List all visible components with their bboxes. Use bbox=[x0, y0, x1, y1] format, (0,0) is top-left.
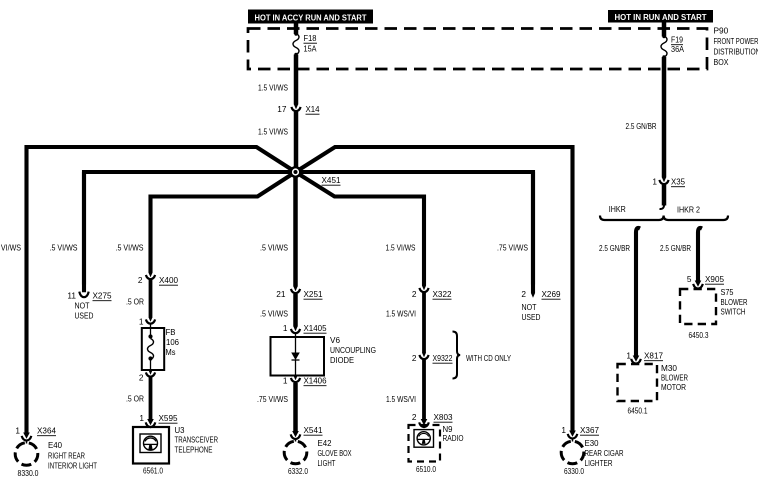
svg-text:21: 21 bbox=[276, 289, 286, 299]
svg-text:X322: X322 bbox=[433, 289, 452, 299]
svg-text:MOTOR: MOTOR bbox=[661, 382, 686, 392]
svg-text:BLOWER: BLOWER bbox=[721, 297, 748, 307]
svg-text:2.5 GN/BR: 2.5 GN/BR bbox=[660, 243, 691, 253]
svg-text:6561.0: 6561.0 bbox=[143, 466, 163, 476]
svg-text:E42: E42 bbox=[318, 438, 332, 448]
svg-text:2.5 GN/BR: 2.5 GN/BR bbox=[626, 121, 657, 131]
svg-text:X451: X451 bbox=[322, 175, 341, 185]
svg-text:.5 VI/WS: .5 VI/WS bbox=[50, 243, 78, 253]
svg-text:TELEPHONE: TELEPHONE bbox=[175, 445, 213, 455]
svg-text:V6: V6 bbox=[330, 335, 340, 345]
svg-text:.5 VI/WS: .5 VI/WS bbox=[260, 243, 288, 253]
svg-text:GLOVE BOX: GLOVE BOX bbox=[318, 448, 352, 458]
svg-text:5: 5 bbox=[687, 274, 692, 284]
svg-text:LIGHTER: LIGHTER bbox=[585, 458, 613, 468]
svg-text:X9322: X9322 bbox=[433, 353, 453, 363]
svg-text:WITH CD ONLY: WITH CD ONLY bbox=[466, 353, 511, 363]
svg-text:U3: U3 bbox=[175, 425, 185, 435]
svg-text:6450.3: 6450.3 bbox=[689, 330, 709, 340]
svg-text:BLOWER: BLOWER bbox=[661, 373, 688, 383]
svg-text:11: 11 bbox=[67, 291, 76, 301]
svg-text:2: 2 bbox=[412, 289, 417, 299]
svg-text:.75 VI/WS: .75 VI/WS bbox=[257, 394, 288, 404]
svg-text:Ms: Ms bbox=[166, 347, 176, 357]
svg-text:BOX: BOX bbox=[714, 57, 729, 67]
svg-text:2: 2 bbox=[412, 353, 417, 363]
svg-text:X803: X803 bbox=[434, 412, 453, 422]
svg-text:LIGHT: LIGHT bbox=[318, 458, 336, 468]
svg-text:17: 17 bbox=[277, 104, 287, 114]
svg-text:SWITCH: SWITCH bbox=[721, 307, 746, 317]
svg-text:6330.0: 6330.0 bbox=[564, 466, 584, 476]
svg-text:.75 VI/WS: .75 VI/WS bbox=[497, 243, 528, 253]
svg-text:1: 1 bbox=[283, 376, 288, 386]
svg-text:HOT IN ACCY RUN AND START: HOT IN ACCY RUN AND START bbox=[255, 13, 367, 22]
svg-text:1: 1 bbox=[561, 425, 566, 435]
svg-text:2: 2 bbox=[521, 289, 526, 299]
svg-text:2.5 GN/BR: 2.5 GN/BR bbox=[599, 243, 630, 253]
svg-text:1: 1 bbox=[652, 177, 657, 187]
svg-text:106: 106 bbox=[166, 337, 179, 347]
svg-text:15A: 15A bbox=[304, 44, 317, 54]
svg-text:X905: X905 bbox=[705, 274, 724, 284]
svg-text:USED: USED bbox=[75, 311, 94, 321]
svg-text:1: 1 bbox=[283, 323, 288, 333]
svg-text:8330.0: 8330.0 bbox=[18, 468, 39, 478]
svg-text:REAR CIGAR: REAR CIGAR bbox=[585, 448, 624, 458]
svg-text:X269: X269 bbox=[542, 289, 561, 299]
svg-text:TRANSCEIVER: TRANSCEIVER bbox=[175, 435, 219, 445]
svg-text:RADIO: RADIO bbox=[443, 433, 464, 443]
svg-text:6450.1: 6450.1 bbox=[628, 406, 648, 416]
svg-text:IHKR: IHKR bbox=[609, 204, 626, 214]
svg-text:.5 OR: .5 OR bbox=[126, 297, 144, 307]
svg-text:X1405: X1405 bbox=[304, 323, 327, 333]
svg-text:IHKR 2: IHKR 2 bbox=[677, 204, 700, 214]
svg-text:X364: X364 bbox=[37, 426, 56, 436]
svg-text:X1406: X1406 bbox=[304, 376, 327, 386]
svg-text:1: 1 bbox=[15, 426, 20, 436]
svg-text:USED: USED bbox=[522, 312, 541, 322]
svg-text:2: 2 bbox=[412, 412, 417, 422]
svg-text:NOT: NOT bbox=[522, 302, 537, 312]
svg-text:RIGHT REAR: RIGHT REAR bbox=[48, 451, 85, 461]
svg-text:P90: P90 bbox=[714, 26, 729, 36]
svg-text:X14: X14 bbox=[306, 104, 320, 114]
svg-text:INTERIOR LIGHT: INTERIOR LIGHT bbox=[48, 461, 97, 471]
svg-text:1.5 WS/VI: 1.5 WS/VI bbox=[386, 309, 416, 319]
svg-text:DISTRIBUTION: DISTRIBUTION bbox=[714, 47, 758, 57]
svg-text:.5 OR: .5 OR bbox=[126, 394, 144, 404]
svg-text:.5 VI/WS: .5 VI/WS bbox=[0, 243, 21, 253]
svg-text:1: 1 bbox=[139, 317, 144, 327]
svg-text:FRONT POWER: FRONT POWER bbox=[714, 36, 758, 46]
svg-text:X541: X541 bbox=[304, 425, 323, 435]
svg-text:2: 2 bbox=[139, 373, 144, 383]
svg-text:NOT: NOT bbox=[75, 301, 90, 311]
svg-text:.5 VI/WS: .5 VI/WS bbox=[260, 309, 288, 319]
svg-text:X595: X595 bbox=[159, 413, 178, 423]
svg-text:M30: M30 bbox=[661, 363, 677, 373]
svg-text:F19: F19 bbox=[671, 35, 683, 45]
svg-text:1.5 VI/WS: 1.5 VI/WS bbox=[258, 127, 288, 137]
svg-text:1.5 WS/VI: 1.5 WS/VI bbox=[386, 394, 416, 404]
svg-text:X275: X275 bbox=[93, 291, 112, 301]
svg-text:F18: F18 bbox=[304, 33, 317, 43]
svg-text:E30: E30 bbox=[585, 438, 599, 448]
svg-text:FB: FB bbox=[166, 327, 176, 337]
svg-text:1: 1 bbox=[139, 413, 144, 423]
svg-text:X817: X817 bbox=[644, 351, 663, 361]
svg-text:.5 VI/WS: .5 VI/WS bbox=[116, 243, 144, 253]
svg-text:S75: S75 bbox=[721, 287, 734, 297]
svg-text:1.5 VI/WS: 1.5 VI/WS bbox=[386, 243, 416, 253]
svg-text:DIODE: DIODE bbox=[330, 355, 354, 365]
svg-text:2: 2 bbox=[138, 275, 143, 285]
svg-text:X400: X400 bbox=[159, 275, 178, 285]
svg-text:6510.0: 6510.0 bbox=[416, 464, 436, 474]
svg-text:E40: E40 bbox=[48, 440, 62, 450]
svg-text:1.5 VI/WS: 1.5 VI/WS bbox=[258, 83, 288, 93]
svg-text:X367: X367 bbox=[580, 425, 599, 435]
svg-text:X35: X35 bbox=[671, 177, 685, 187]
svg-text:6332.0: 6332.0 bbox=[288, 466, 308, 476]
svg-text:36A: 36A bbox=[671, 44, 684, 54]
svg-text:UNCOUPLING: UNCOUPLING bbox=[330, 345, 376, 355]
svg-text:X251: X251 bbox=[304, 289, 323, 299]
svg-text:HOT IN RUN AND START: HOT IN RUN AND START bbox=[615, 13, 707, 22]
svg-text:1: 1 bbox=[626, 351, 631, 361]
